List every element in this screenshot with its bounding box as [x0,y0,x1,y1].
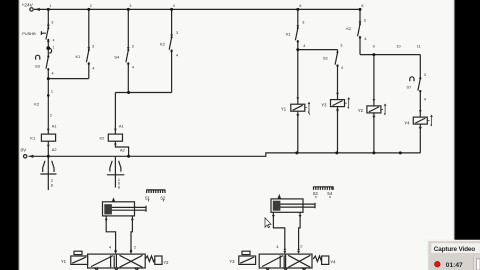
svg-text:S4: S4 [327,191,333,196]
svg-text:4: 4 [303,44,305,48]
svg-text:4: 4 [424,97,426,101]
svg-text:8: 8 [51,183,53,187]
svg-text:01:47: 01:47 [446,262,463,269]
svg-text:Y1: Y1 [281,106,287,111]
svg-text:1: 1 [51,89,53,93]
svg-text:3: 3 [424,73,426,77]
svg-text:S2: S2 [160,195,166,200]
svg-text:3: 3 [92,44,94,48]
svg-text:4: 4 [364,37,366,41]
svg-text:K1: K1 [30,135,36,140]
svg-text:S7: S7 [406,84,412,89]
svg-text:2: 2 [51,179,53,183]
svg-text:Y2: Y2 [358,108,364,113]
svg-text:Y3: Y3 [321,102,327,107]
svg-text:S2: S2 [323,55,329,60]
svg-text:2: 2 [134,245,136,249]
svg-text:3: 3 [340,43,342,47]
svg-text:K2: K2 [100,136,106,141]
svg-text:0V: 0V [21,147,28,153]
svg-text:3: 3 [51,20,53,24]
svg-text:PUSHB: PUSHB [22,31,36,36]
svg-text:S4: S4 [114,54,120,59]
svg-text:2: 2 [300,245,302,249]
svg-text:K1: K1 [286,31,292,36]
svg-text:K2: K2 [34,101,40,106]
svg-text:1: 1 [53,45,55,49]
svg-text:Y2: Y2 [163,260,169,265]
svg-text:Y1: Y1 [61,259,67,264]
svg-text:1: 1 [49,4,51,8]
svg-text:4: 4 [276,245,278,249]
svg-text:A1: A1 [52,123,57,128]
svg-text:+24V: +24V [22,2,34,8]
svg-text:K2: K2 [160,41,166,46]
svg-text:3: 3 [129,4,131,8]
svg-text:4: 4 [132,65,134,69]
svg-text:S1: S1 [145,195,151,200]
svg-text:9: 9 [373,45,375,49]
svg-text:4: 4 [176,53,178,57]
svg-text:6: 6 [299,4,301,8]
svg-text:Y3: Y3 [229,259,235,264]
svg-text:11: 11 [417,45,421,49]
svg-text:S3: S3 [313,191,319,196]
svg-text:2: 2 [50,114,52,118]
svg-text:Capture Video: Capture Video [434,246,476,253]
svg-text:4: 4 [52,72,54,76]
svg-text:3: 3 [364,18,366,22]
svg-text:4: 4 [173,4,175,8]
svg-text:4: 4 [341,66,343,70]
svg-text:K2: K2 [346,26,352,31]
svg-text:Y4: Y4 [404,120,410,125]
svg-text:S3: S3 [35,63,41,68]
svg-text:8: 8 [118,185,120,189]
svg-text:Y4: Y4 [330,260,336,265]
svg-text:10: 10 [396,45,400,49]
svg-text:A2: A2 [52,147,57,152]
svg-text:K1: K1 [76,54,82,59]
svg-text:4: 4 [53,39,55,43]
svg-text:3: 3 [176,31,178,35]
svg-text:8: 8 [361,4,363,8]
svg-text:3: 3 [302,20,304,24]
svg-text:A1: A1 [119,124,124,129]
svg-text:A2: A2 [120,147,125,152]
svg-text:2: 2 [90,4,92,8]
svg-text:3: 3 [132,44,134,48]
svg-text:4: 4 [109,245,111,249]
svg-text:4: 4 [92,66,94,70]
